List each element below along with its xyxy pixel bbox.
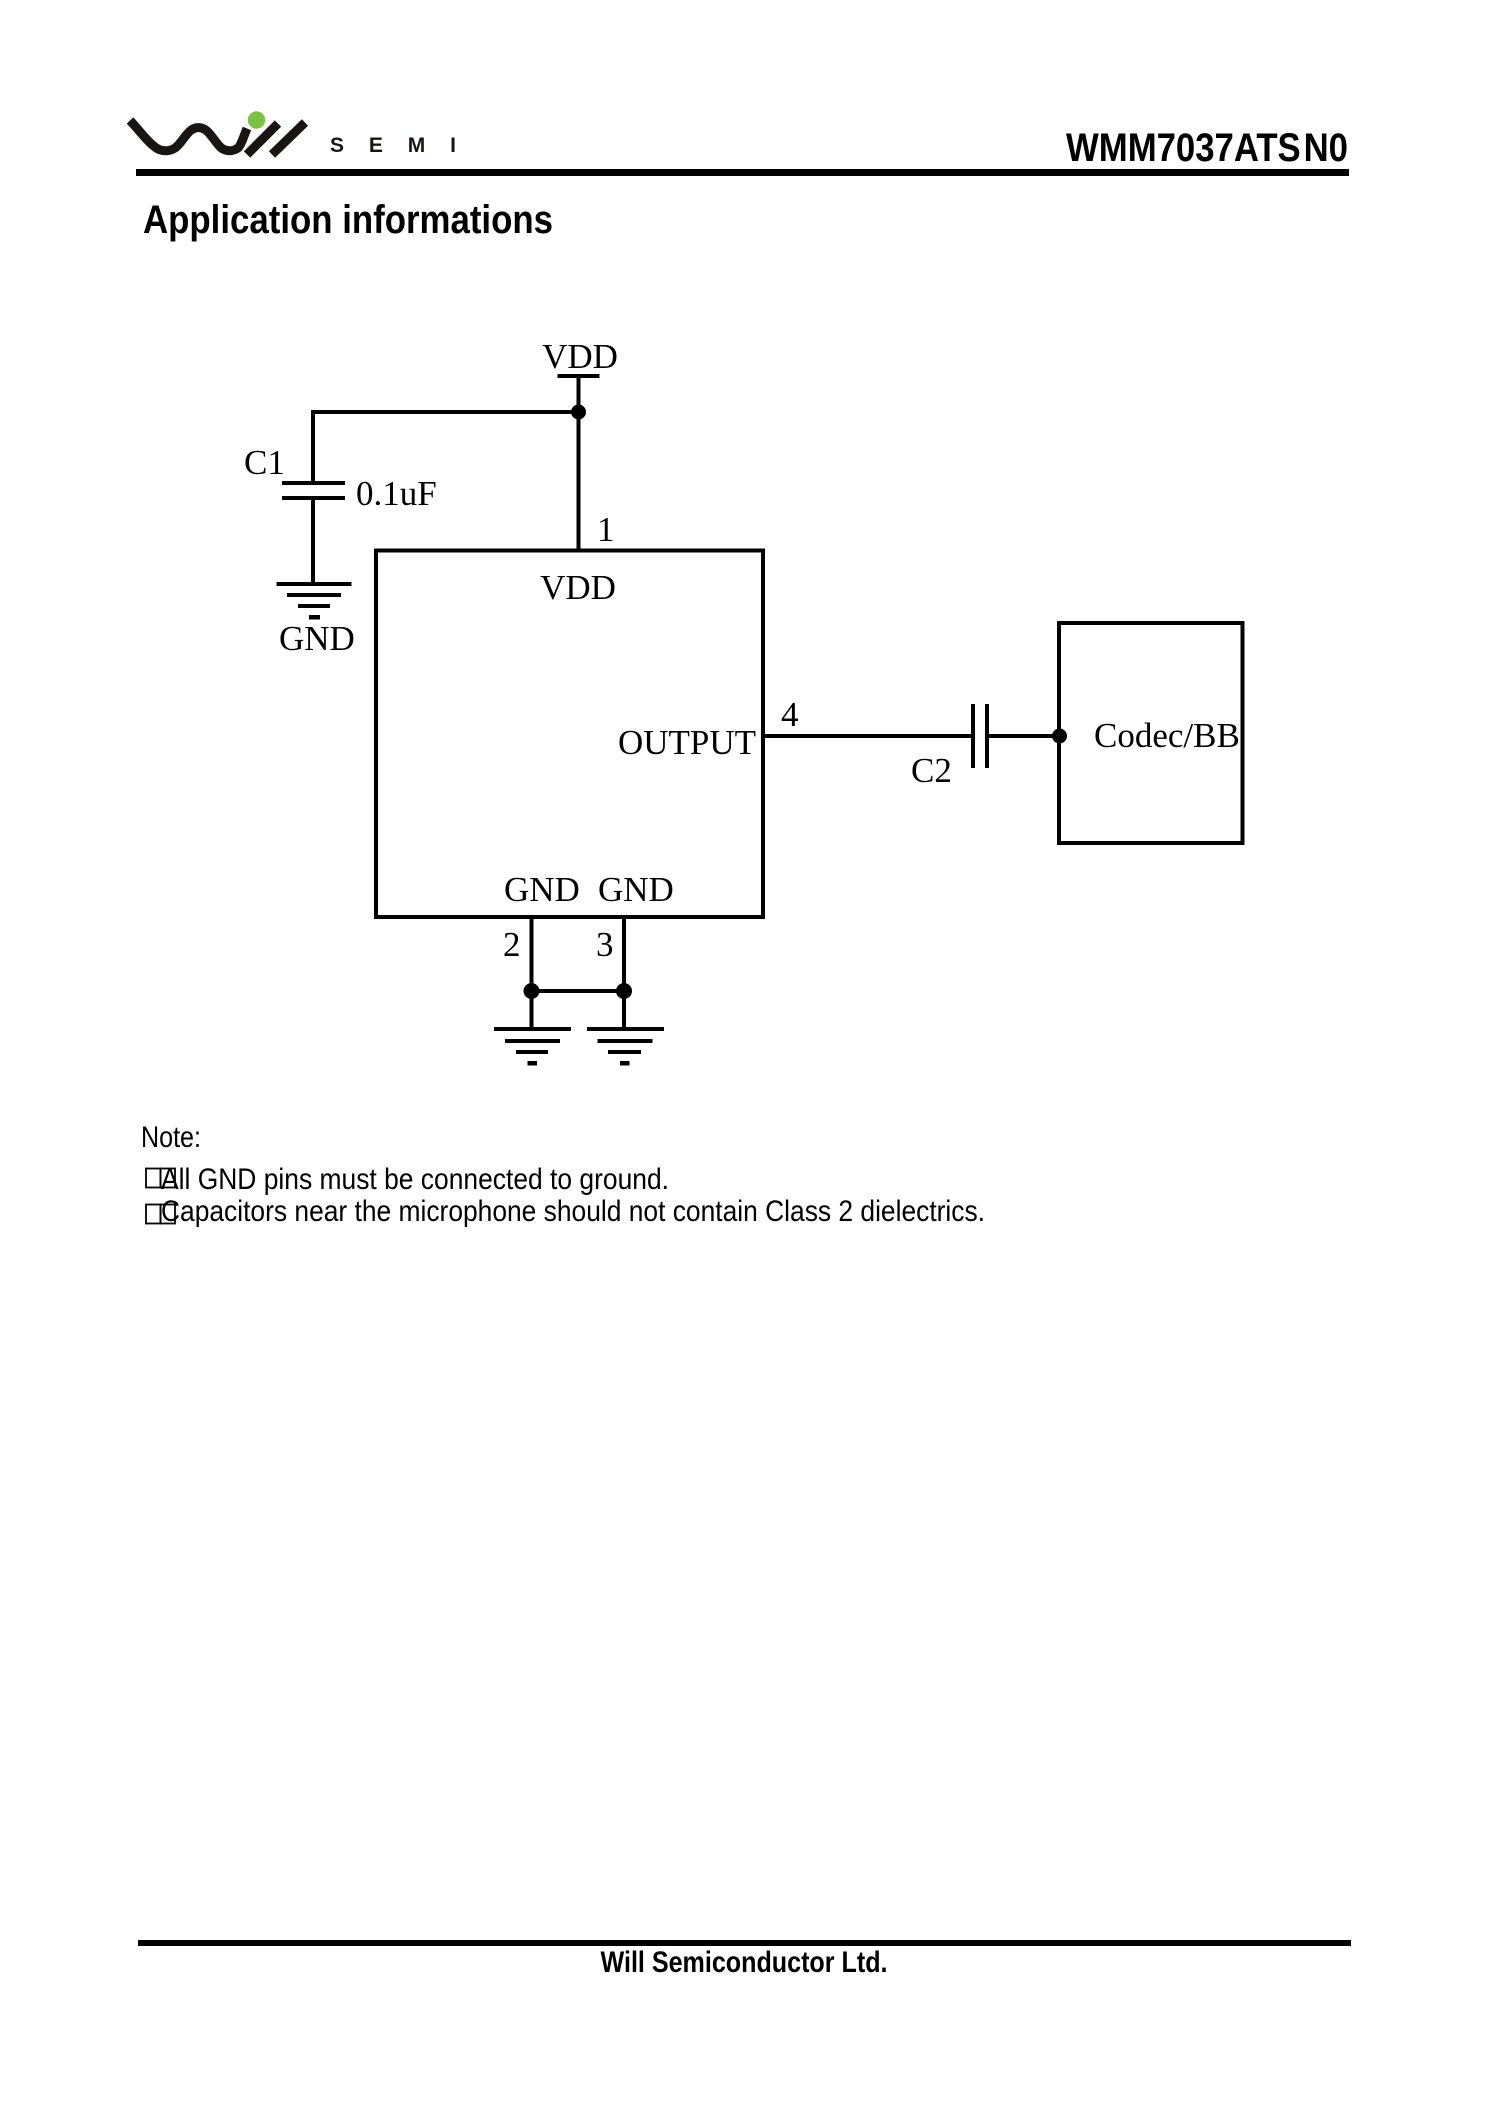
header rule [136, 169, 1349, 176]
node C2 Codec junction [1052, 729, 1067, 744]
svg-text:Note:: Note: [141, 1121, 201, 1154]
svg-text:4: 4 [781, 695, 799, 734]
svg-text:3: 3 [596, 925, 614, 964]
title Application informations [0, 190, 700, 250]
svg-text:1: 1 [597, 510, 615, 549]
node VDD junction [571, 405, 586, 420]
pin 2 wire [530, 917, 534, 1029]
logo WillSemi [0, 0, 1488, 280]
svg-text:C2: C2 [911, 751, 952, 790]
svg-text:2: 2 [503, 925, 521, 964]
svg-text:GND: GND [279, 619, 355, 658]
svg-text:GND: GND [504, 870, 580, 909]
svg-text:0.1uF: 0.1uF [356, 474, 437, 513]
capacitor C2 right lead wire [989, 734, 1059, 738]
node pin 3 junction [616, 983, 632, 999]
capacitor C1 plates [282, 481, 345, 485]
ground symbol at pin 2 [494, 1027, 571, 1066]
pin 4 wire [762, 734, 971, 738]
note bullet box 1 [146, 1169, 175, 1188]
logo wave W [130, 121, 247, 151]
footer rule [138, 1940, 1351, 1946]
capacitor C2 plates [971, 704, 975, 768]
svg-text:Will Semiconductor Ltd.: Will Semiconductor Ltd. [601, 1946, 888, 1979]
svg-text:Codec/BB: Codec/BB [1094, 716, 1240, 755]
wire VDD to C1 [311, 410, 579, 414]
svg-text:GND: GND [598, 870, 674, 909]
svg-text:OUTPUT: OUTPUT [618, 723, 756, 762]
logo slash l [272, 123, 305, 155]
node pin 2 junction [524, 983, 540, 999]
capacitor C1 top lead wire [311, 412, 315, 482]
svg-text:Capacitors near the microphone: Capacitors near the microphone should no… [161, 1195, 985, 1228]
note text [0, 1100, 1100, 1260]
svg-text:SEMI: SEMI [330, 134, 458, 157]
svg-text:VDD: VDD [542, 337, 618, 376]
power symbol VDD bar [558, 374, 600, 378]
svg-text:VDD: VDD [540, 568, 616, 607]
wire pin 1 [577, 412, 581, 549]
note bullet box 2 [146, 1205, 175, 1224]
ground symbol at pin 3 [587, 1027, 664, 1066]
svg-text:Application informations: Application informations [143, 198, 553, 242]
Codec/BB box [1059, 623, 1243, 843]
wire pin2 to pin3 [531, 989, 624, 993]
svg-text:All GND pins must be connected: All GND pins must be connected to ground… [161, 1163, 669, 1196]
logo green dot [248, 111, 265, 128]
wire VDD stub [577, 376, 581, 413]
IC U1 box [376, 551, 763, 918]
footer text [0, 1945, 1488, 1995]
ground symbol at C1 [277, 582, 352, 620]
svg-text:C1: C1 [244, 443, 285, 482]
logo slash i [247, 124, 278, 155]
svg-text:WMM7037ATS N0: WMM7037ATS N0 [1066, 126, 1348, 170]
pin 3 wire [622, 917, 626, 1029]
capacitor C1 bottom lead wire [311, 500, 315, 584]
